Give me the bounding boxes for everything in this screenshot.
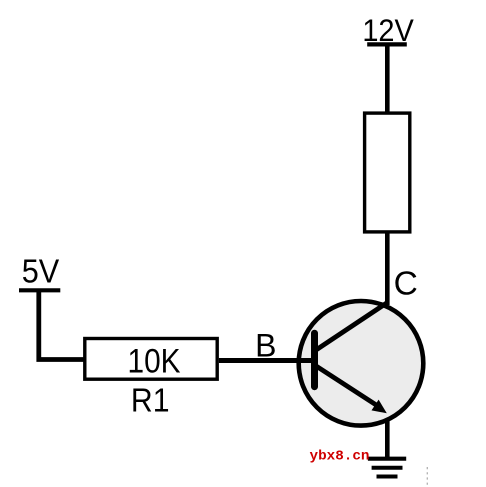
transistor Q1 body circle <box>299 301 424 426</box>
5V supply rail bar <box>19 288 60 292</box>
svg-text:5V: 5V <box>22 252 60 289</box>
transistor Q1 collector stroke <box>313 302 388 352</box>
svg-text:B: B <box>255 328 276 364</box>
ground symbol bar 1 <box>368 457 406 461</box>
scan artifact dotted line <box>426 467 428 486</box>
12V supply rail bar <box>367 42 407 46</box>
wire emitter to ground <box>385 419 390 459</box>
wire resistor bottom to collector node C <box>385 233 390 305</box>
svg-text:C: C <box>394 265 418 302</box>
svg-text:ybx8.cn: ybx8.cn <box>310 449 370 465</box>
transistor Q1 emitter stroke <box>313 364 380 407</box>
transistor Q1 emitter arrowhead <box>372 400 387 414</box>
wire 5V rail down and right to resistor R1 <box>39 290 85 359</box>
resistor R1 body <box>85 339 217 380</box>
ground symbol bar 2 <box>372 466 403 470</box>
svg-text:10K: 10K <box>128 342 181 380</box>
transistor Q1 base bar <box>311 330 318 391</box>
wire 12V rail to resistor top <box>385 44 390 112</box>
ground symbol bar 3 <box>377 475 398 479</box>
wire R1 to base of Q1 <box>219 358 313 363</box>
svg-text:R1: R1 <box>131 382 170 419</box>
resistor (collector load, unlabeled) body <box>365 113 410 232</box>
